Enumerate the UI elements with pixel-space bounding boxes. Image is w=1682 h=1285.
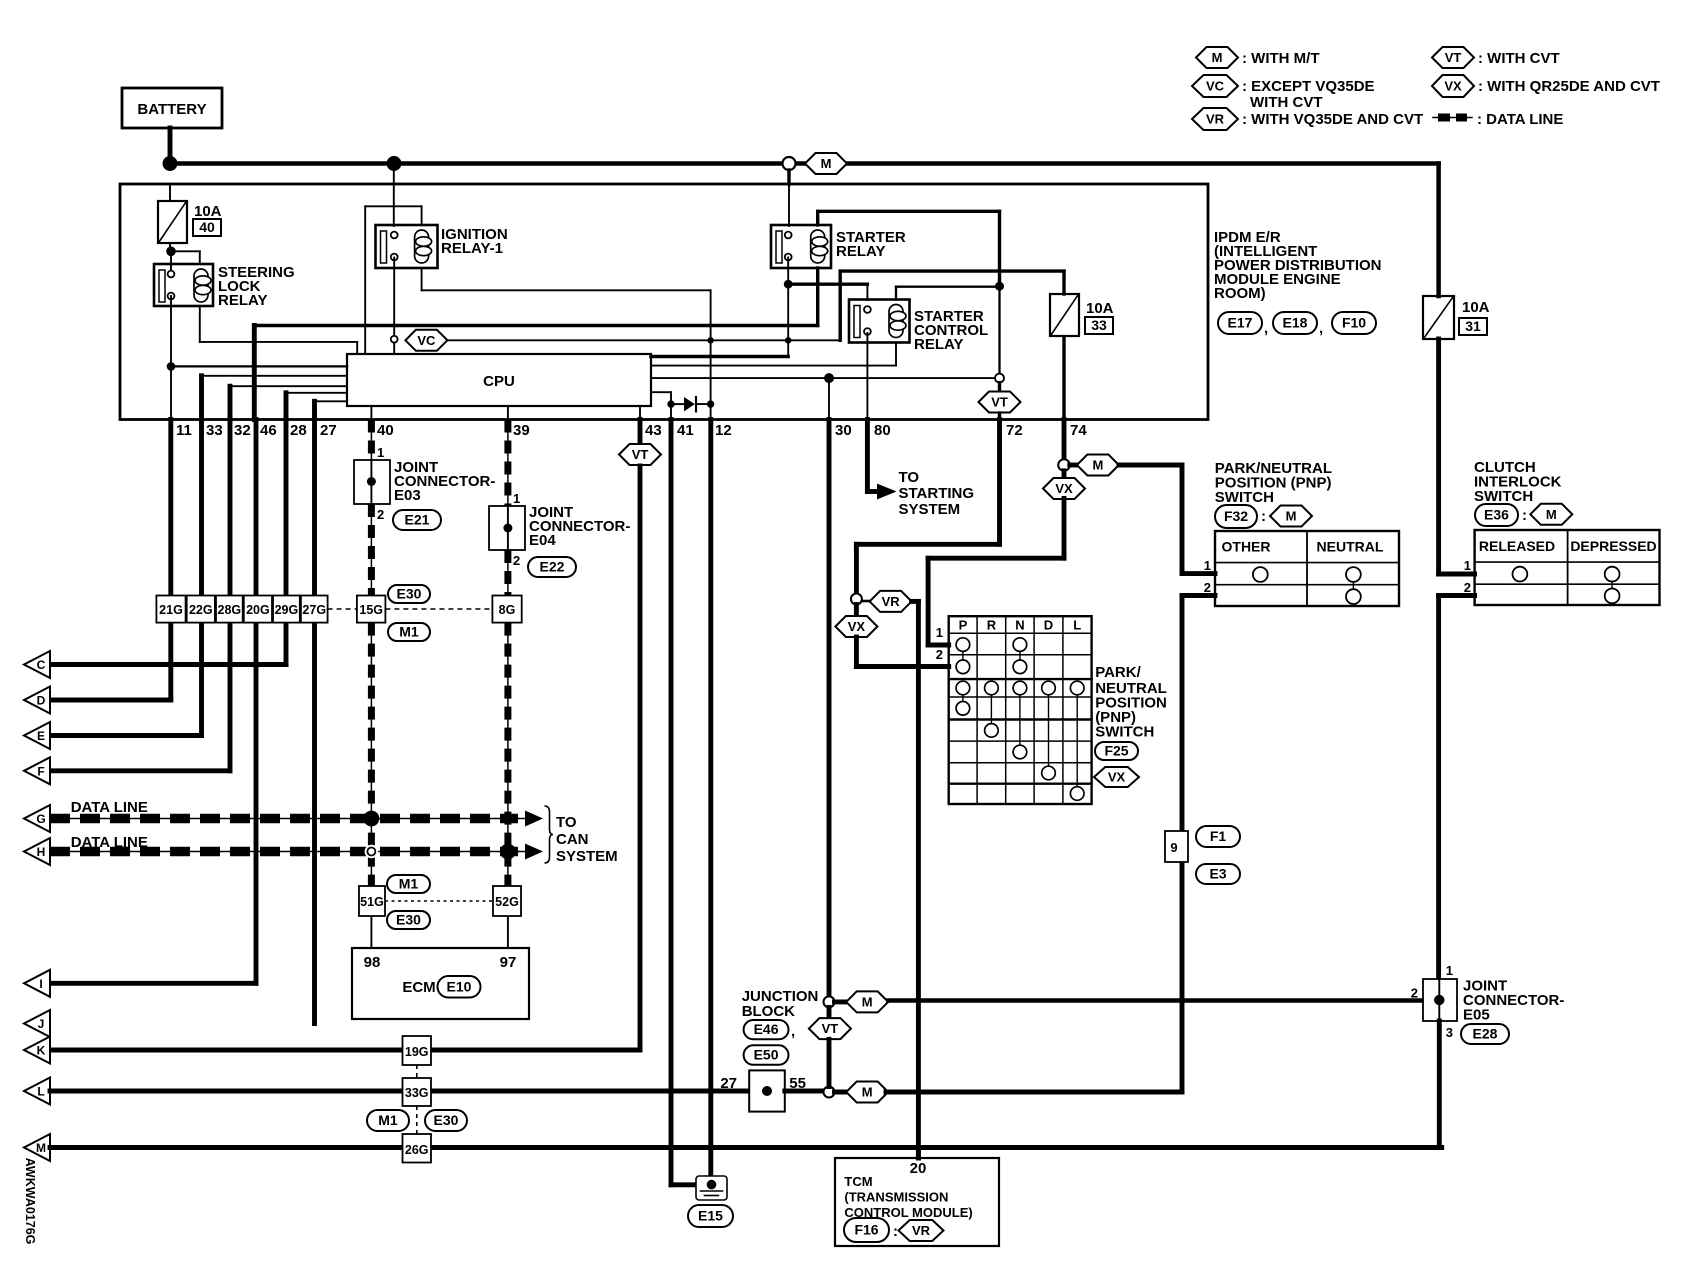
svg-text:E03: E03: [394, 487, 421, 504]
svg-text:M1: M1: [399, 624, 419, 640]
svg-text:E50: E50: [754, 1047, 779, 1063]
svg-text:VT: VT: [1445, 50, 1462, 65]
svg-text:M1: M1: [399, 876, 419, 892]
svg-text:: EXCEPT VQ35DE: : EXCEPT VQ35DE: [1242, 78, 1375, 95]
svg-text:R: R: [987, 618, 997, 633]
svg-text:D: D: [1044, 618, 1053, 633]
svg-text:1: 1: [1446, 963, 1453, 978]
svg-text:1: 1: [1464, 558, 1471, 573]
svg-text:: WITH CVT: : WITH CVT: [1478, 50, 1560, 67]
svg-text:RELAY: RELAY: [914, 336, 963, 353]
svg-text:AWKWA0176G: AWKWA0176G: [23, 1158, 37, 1245]
svg-text:27: 27: [320, 422, 337, 439]
svg-text:27: 27: [720, 1075, 737, 1092]
svg-text:CPU: CPU: [483, 373, 515, 390]
svg-text:31: 31: [1465, 318, 1481, 334]
svg-text:15G: 15G: [359, 603, 383, 617]
svg-text:E05: E05: [1463, 1007, 1490, 1024]
svg-text:M: M: [821, 156, 832, 171]
svg-text:9: 9: [1170, 840, 1177, 855]
svg-text:2: 2: [936, 647, 943, 662]
svg-text:,: ,: [1264, 320, 1268, 337]
svg-text:CAN: CAN: [556, 831, 589, 848]
svg-text:33: 33: [206, 422, 223, 439]
svg-text:12: 12: [715, 422, 732, 439]
svg-text:30: 30: [835, 422, 852, 439]
svg-text:98: 98: [364, 954, 381, 971]
svg-text:M1: M1: [378, 1112, 398, 1128]
svg-text:E21: E21: [405, 512, 430, 528]
svg-text:51G: 51G: [360, 895, 384, 909]
svg-text:10A: 10A: [1462, 299, 1490, 316]
svg-text:BATTERY: BATTERY: [137, 101, 206, 118]
svg-text:E36: E36: [1484, 507, 1509, 523]
svg-text:1: 1: [1204, 558, 1211, 573]
svg-text:VR: VR: [1206, 112, 1225, 127]
svg-text:OTHER: OTHER: [1222, 539, 1271, 555]
svg-text:D: D: [37, 694, 46, 708]
svg-text:F1: F1: [1210, 828, 1227, 844]
svg-text:: WITH QR25DE AND CVT: : WITH QR25DE AND CVT: [1478, 78, 1660, 95]
svg-text:SWITCH: SWITCH: [1474, 488, 1533, 505]
svg-text:F10: F10: [1342, 315, 1366, 331]
svg-text:F: F: [37, 764, 44, 778]
svg-text:M: M: [1286, 509, 1297, 524]
svg-text:TCM: TCM: [844, 1174, 872, 1189]
svg-text:F16: F16: [854, 1222, 878, 1238]
svg-text:DATA LINE: DATA LINE: [71, 799, 148, 816]
svg-text:8G: 8G: [499, 603, 516, 617]
svg-text:E28: E28: [1473, 1026, 1498, 1042]
svg-text:28: 28: [290, 422, 307, 439]
svg-text:74: 74: [1070, 422, 1087, 439]
svg-text:VR: VR: [912, 1223, 931, 1238]
svg-text:F32: F32: [1224, 508, 1248, 524]
svg-text:M: M: [862, 1085, 873, 1100]
svg-text:: WITH VQ35DE AND CVT: : WITH VQ35DE AND CVT: [1242, 111, 1423, 128]
svg-text:1: 1: [936, 625, 943, 640]
svg-text:VX: VX: [1108, 770, 1126, 785]
svg-text:E46: E46: [754, 1021, 779, 1037]
svg-text:VT: VT: [991, 395, 1008, 410]
svg-text:VR: VR: [882, 594, 901, 609]
svg-text:E30: E30: [397, 586, 422, 602]
svg-text:E15: E15: [698, 1208, 723, 1224]
svg-text:J: J: [38, 1017, 45, 1031]
svg-text:E30: E30: [396, 912, 421, 928]
svg-text::: :: [1261, 508, 1266, 525]
svg-text:M: M: [36, 1141, 46, 1155]
svg-text:RELAY: RELAY: [218, 292, 267, 309]
svg-text:E22: E22: [540, 559, 565, 575]
svg-text:41: 41: [677, 422, 694, 439]
svg-text:G: G: [36, 812, 45, 826]
svg-text:39: 39: [513, 422, 530, 439]
svg-text:2: 2: [1464, 580, 1471, 595]
svg-text:M: M: [862, 994, 873, 1009]
svg-text:VC: VC: [417, 333, 436, 348]
svg-text:E: E: [37, 729, 45, 743]
svg-text:20G: 20G: [246, 603, 270, 617]
svg-text:L: L: [1073, 618, 1081, 633]
svg-text:STARTING: STARTING: [899, 485, 975, 502]
svg-text:E04: E04: [529, 532, 556, 549]
svg-text:SYSTEM: SYSTEM: [899, 501, 961, 518]
svg-text:M: M: [1092, 458, 1103, 473]
svg-text:VX: VX: [1055, 481, 1073, 496]
svg-text:80: 80: [874, 422, 891, 439]
svg-text:P: P: [959, 618, 968, 633]
svg-text:20: 20: [910, 1160, 927, 1177]
svg-text:3: 3: [1446, 1025, 1453, 1040]
svg-text:43: 43: [645, 422, 662, 439]
svg-text:BLOCK: BLOCK: [742, 1003, 795, 1020]
svg-text:52G: 52G: [495, 895, 519, 909]
svg-text:C: C: [37, 658, 46, 672]
svg-text:21G: 21G: [159, 603, 183, 617]
svg-text:M: M: [1546, 507, 1557, 522]
svg-text:33G: 33G: [405, 1086, 429, 1100]
svg-text::: :: [893, 1223, 898, 1240]
svg-text:PARK/: PARK/: [1095, 664, 1141, 681]
svg-text:DEPRESSED: DEPRESSED: [1570, 538, 1656, 554]
svg-text:1: 1: [377, 445, 384, 460]
svg-text:I: I: [39, 977, 42, 991]
svg-text:10A: 10A: [1086, 300, 1114, 317]
svg-text:VT: VT: [632, 447, 649, 462]
svg-text:1: 1: [513, 491, 520, 506]
svg-text:,: ,: [791, 1023, 795, 1040]
svg-text:ECM: ECM: [402, 979, 435, 996]
svg-text:(TRANSMISSION: (TRANSMISSION: [844, 1190, 948, 1205]
svg-text:TO: TO: [899, 469, 920, 486]
svg-text:11: 11: [176, 422, 192, 439]
svg-text:ROOM): ROOM): [1214, 285, 1266, 302]
svg-text:WITH CVT: WITH CVT: [1250, 94, 1323, 111]
svg-text:33: 33: [1091, 317, 1107, 333]
svg-text:97: 97: [500, 954, 517, 971]
svg-text:RELEASED: RELEASED: [1479, 538, 1555, 554]
svg-text:H: H: [37, 845, 46, 859]
svg-text:29G: 29G: [275, 603, 299, 617]
svg-text:46: 46: [260, 422, 277, 439]
svg-text:SYSTEM: SYSTEM: [556, 848, 618, 865]
svg-text:L: L: [37, 1085, 44, 1099]
svg-text:E10: E10: [447, 978, 472, 994]
svg-text:VX: VX: [848, 619, 866, 634]
svg-text:19G: 19G: [405, 1045, 429, 1059]
svg-text:SWITCH: SWITCH: [1215, 489, 1274, 506]
svg-text:26G: 26G: [405, 1143, 429, 1157]
svg-text:F25: F25: [1104, 743, 1128, 759]
svg-text:NEUTRAL: NEUTRAL: [1317, 539, 1384, 555]
svg-text:SWITCH: SWITCH: [1095, 724, 1154, 741]
svg-text:N: N: [1015, 618, 1024, 633]
svg-text:K: K: [37, 1044, 46, 1058]
svg-text:TO: TO: [556, 814, 577, 831]
svg-text:,: ,: [1319, 320, 1323, 337]
svg-text:E17: E17: [1228, 315, 1253, 331]
svg-text:E30: E30: [434, 1112, 459, 1128]
svg-text:27G: 27G: [302, 603, 326, 617]
svg-text:40: 40: [377, 422, 394, 439]
svg-text::: :: [1522, 507, 1527, 524]
svg-text:RELAY-1: RELAY-1: [441, 240, 503, 257]
svg-text:VC: VC: [1206, 79, 1225, 94]
svg-text:M: M: [1212, 50, 1223, 65]
svg-text:72: 72: [1006, 422, 1023, 439]
svg-text:32: 32: [234, 422, 251, 439]
svg-text:2: 2: [513, 553, 520, 568]
svg-text:2: 2: [1411, 985, 1418, 1000]
svg-text:22G: 22G: [189, 603, 213, 617]
svg-text:40: 40: [199, 219, 215, 235]
svg-text:E18: E18: [1283, 315, 1308, 331]
svg-text:28G: 28G: [218, 603, 242, 617]
svg-text:E3: E3: [1209, 866, 1226, 882]
svg-text:: DATA LINE: : DATA LINE: [1477, 111, 1563, 128]
svg-text:RELAY: RELAY: [836, 243, 885, 260]
svg-text:: WITH M/T: : WITH M/T: [1242, 50, 1319, 67]
svg-text:VT: VT: [822, 1021, 839, 1036]
svg-text:2: 2: [377, 507, 384, 522]
svg-text:2: 2: [1204, 580, 1211, 595]
svg-text:VX: VX: [1444, 79, 1462, 94]
svg-text:10A: 10A: [194, 203, 222, 220]
